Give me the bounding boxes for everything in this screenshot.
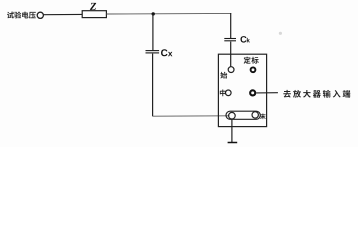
terminal 中 circle [226, 90, 232, 96]
terminal 始 (start) [228, 67, 234, 73]
label Cx [161, 49, 172, 56]
wire: terminal to Z [44, 13, 82, 15]
label Z [90, 3, 96, 10]
label 去放大器输入端 (to amplifier input) [283, 90, 350, 98]
wire: junction down to Cx [152, 14, 154, 50]
label Ck [240, 36, 249, 43]
link strap (stadium) [226, 111, 260, 119]
wire: top rail corner down to Ck [230, 13, 232, 38]
strap right contact [252, 112, 258, 118]
capacitor Ck (coupling capacitor) [224, 39, 236, 41]
terminal: test-voltage input circle [37, 12, 43, 18]
wire: output jack to amplifier [256, 92, 278, 94]
label 中 (middle) [220, 89, 226, 96]
wire: strap contact down to ground [231, 119, 233, 142]
measuring impedance box [218, 54, 266, 126]
label 试验电压 (test voltage) [7, 12, 36, 19]
scan smudge (artifact) [279, 32, 282, 35]
wire: Z to corner (top rail) [106, 12, 231, 15]
node: junction dot [152, 12, 155, 15]
ground [228, 142, 238, 144]
capacitor Cx (test object) [146, 51, 160, 53]
label 始 [220, 72, 227, 79]
wire: Ck to 始 terminal inside box [230, 42, 232, 67]
terminal: calibration jack (ring) [251, 67, 256, 72]
label 末 (end) [260, 114, 266, 120]
wire: bottom rail to measuring box [153, 115, 230, 117]
label 定标 (calibration) [244, 57, 259, 64]
wire: Cx down to bottom rail [152, 54, 154, 117]
strap left contact [229, 112, 236, 119]
resistor Z (filter impedance) [82, 11, 106, 18]
terminal: output jack (ring) [250, 90, 255, 95]
